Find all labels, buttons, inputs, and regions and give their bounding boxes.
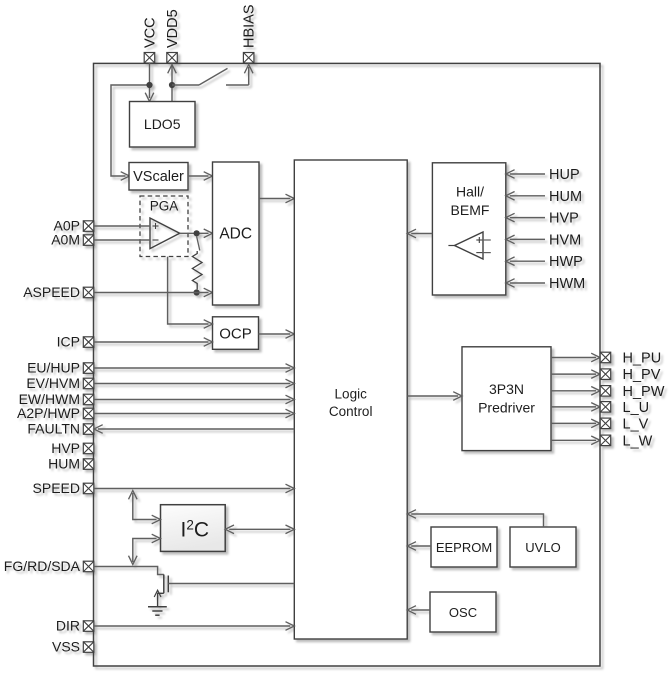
comparator Hall amplifier [448,232,490,259]
wire VScaler to ADC [188,172,213,181]
svg-text:H_PV: H_PV [623,367,661,383]
svg-text:L_W: L_W [623,433,653,449]
wire I2C to Logic Control bidirectional [225,525,294,534]
pin HVP [51,440,94,456]
block ADC [213,162,260,305]
svg-text:I2C: I2C [181,518,210,542]
junction dot PGA output [194,230,200,236]
svg-text:BEMF: BEMF [451,202,490,218]
wire PGA bottom to OCP [168,257,213,329]
svg-text:A2P/HWP: A2P/HWP [17,405,80,421]
svg-text:EEPROM: EEPROM [436,540,492,555]
svg-text:HWP: HWP [549,254,583,270]
node HUM [549,189,582,205]
svg-text:Logic: Logic [335,387,368,402]
block EEPROM [431,527,497,567]
transistor Q1 open-drain NMOS [154,575,168,607]
pin FG/RD/SDA [4,558,94,574]
svg-text:VScaler: VScaler [133,169,184,185]
pin DIR [56,618,94,634]
PGA dashed box [140,196,188,257]
svg-text:VCC: VCC [143,17,159,48]
svg-text:FG/RD/SDA: FG/RD/SDA [4,558,81,574]
pin A0P [54,218,94,234]
svg-text:HWM: HWM [549,276,585,292]
chip boundary [94,63,601,666]
svg-text:A0M: A0M [51,232,80,248]
junction dot VCC [146,82,152,88]
svg-text:HUM: HUM [48,456,80,472]
pin A2P/HWP [17,405,94,421]
junction dot VDD5 [169,82,175,88]
block Hall/BEMF [432,163,505,295]
node HUP [549,167,580,183]
svg-text:ICP: ICP [57,334,80,350]
pin L_V [600,416,648,432]
pin H_PW [600,384,665,400]
svg-text:Hall/: Hall/ [456,184,484,200]
svg-text:VDD5: VDD5 [165,9,181,48]
op-amp PGA amplifier [150,218,180,249]
pin EW/HWM [19,391,94,407]
wire ADC to Logic Control [259,194,294,203]
ground [148,607,167,616]
svg-text:ASPEED: ASPEED [23,284,80,300]
svg-text:LDO5: LDO5 [144,116,181,132]
svg-text:L_V: L_V [623,416,649,432]
svg-text:DIR: DIR [56,618,80,634]
pin EV/HVM [26,375,93,391]
wire A0P to PGA [94,225,150,227]
wire Predriver to H_PU [551,353,600,362]
svg-text:Predriver: Predriver [478,400,535,416]
pin HUM [48,456,94,472]
block VScaler [129,163,188,191]
wire UVLO to Logic Control [407,510,543,527]
wire Hall/BEMF to Logic Control [407,229,432,238]
svg-text:SPEED: SPEED [33,480,80,496]
resistor gain-set [192,251,202,289]
svg-text:3P3N: 3P3N [489,381,524,397]
block I2C [161,505,226,552]
svg-text:EU/HUP: EU/HUP [27,360,80,376]
wire VCC pin to LDO5 with branch to VScaler [111,63,154,180]
wire A0M to PGA [94,239,150,241]
pin EU/HUP [27,360,94,376]
block OCP [213,317,259,350]
pin SPEED [33,480,94,496]
node HWM [549,276,585,292]
wire Predriver to H_PW [551,387,600,396]
wire Predriver to L_U [551,403,600,412]
wire FG branch to I2C [129,534,161,564]
wire HWP to Hall/BEMF [506,257,545,266]
svg-text:H_PU: H_PU [623,351,662,367]
pin H_PV [600,367,661,383]
wire EV/HVM to Logic Control [94,379,294,388]
node HVP [549,211,579,227]
svg-text:HUP: HUP [549,167,580,183]
svg-text:Control: Control [329,404,373,419]
wire Logic Control to FAULTN [94,425,294,434]
wire SPEED to Logic Control [94,484,294,493]
node HVM [549,232,581,248]
wire FG/RD/SDA to transistor drain [94,567,164,575]
svg-text:HVP: HVP [549,211,579,227]
pin FAULTN [27,421,93,437]
pin L_U [600,400,649,416]
block OSC [430,592,496,632]
wire HUP to Hall/BEMF [506,170,545,179]
wire SPEED branch to I2C [129,491,161,524]
svg-text:HVP: HVP [51,440,80,456]
wire Predriver to L_W [551,436,600,445]
pin VSS [52,639,94,655]
svg-text:EV/HVM: EV/HVM [26,375,80,391]
block 3P3N Predriver [462,347,551,451]
svg-text:HUM: HUM [549,189,582,205]
junction dot ASPEED [194,289,200,295]
pin ICP [57,334,94,350]
svg-text:OCP: OCP [219,326,252,343]
wire ASPEED to ADC [94,288,213,297]
svg-text:HVM: HVM [549,232,581,248]
wire Predriver to H_PV [551,370,600,379]
block UVLO [510,527,576,567]
svg-text:UVLO: UVLO [525,540,560,555]
svg-text:FAULTN: FAULTN [27,421,80,437]
wire A2P/HWP to Logic Control [94,409,294,418]
wire HUM to Hall/BEMF [506,192,545,201]
wire HWM to Hall/BEMF [506,279,545,288]
pin A0M [51,232,94,248]
pin L_W [600,433,652,449]
wire EEPROM to Logic Control [407,542,431,551]
wire VDD5 pin to LDO5 [168,65,177,102]
wire DIR to Logic Control [94,622,294,631]
switch VDD5 to HBIAS (open blade) [172,65,253,86]
svg-text:PGA: PGA [150,199,179,214]
wire HVM to Hall/BEMF [506,235,545,244]
wire Logic Control to Predriver [407,392,462,401]
pin VCC [143,17,159,63]
wire OCP to Logic Control [259,330,295,339]
pin VDD5 [165,9,181,63]
block Logic Control [294,160,407,639]
svg-text:VSS: VSS [52,639,80,655]
wire HVP to Hall/BEMF [506,213,545,222]
regulator LDO5 [130,102,196,148]
switch blade to resistor [197,236,200,250]
svg-text:OSC: OSC [449,605,477,620]
wire PGA output to ADC [180,229,213,238]
wire EU/HUP to Logic Control [94,364,294,373]
wire ICP to OCP [94,338,213,347]
wire EW/HWM to Logic Control [94,395,294,404]
pin HBIAS [242,4,258,63]
wire OSC to Logic Control [407,606,430,615]
svg-text:L_U: L_U [623,400,650,416]
pin ASPEED [23,284,94,300]
node HWP [549,254,583,270]
pin H_PU [600,351,661,367]
svg-text:HBIAS: HBIAS [242,4,258,48]
svg-text:ADC: ADC [219,226,252,243]
wire Predriver to L_V [551,419,600,428]
wire transistor gate to Logic Control [168,583,294,585]
svg-text:H_PW: H_PW [623,384,665,400]
